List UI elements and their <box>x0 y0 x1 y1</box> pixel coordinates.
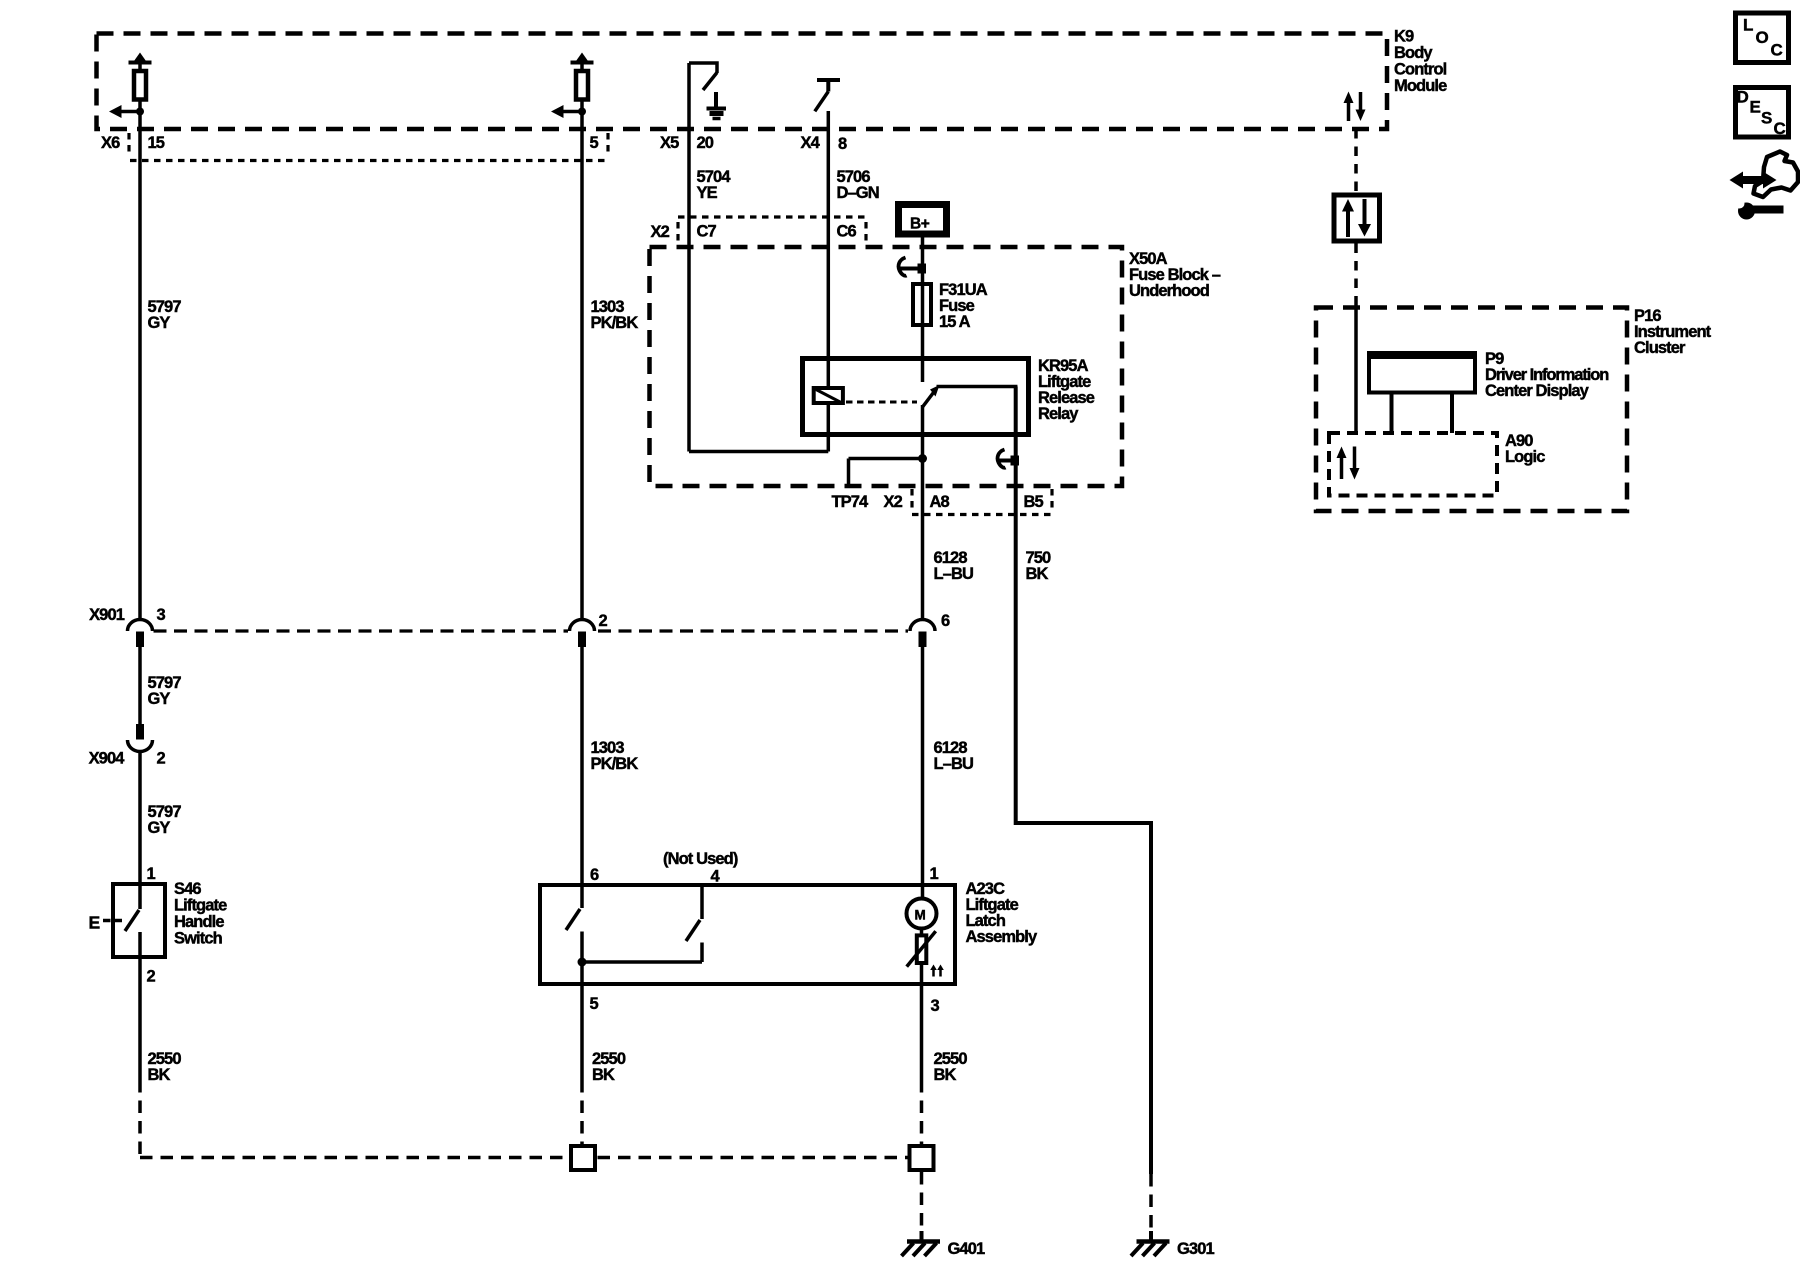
svg-text:S: S <box>1761 109 1772 128</box>
wire 5704 YE vertical (from BCM X5-20) <box>687 63 691 452</box>
svg-text:G301: G301 <box>1177 1240 1214 1258</box>
svg-text:C: C <box>1771 41 1783 60</box>
svg-text:Cluster: Cluster <box>1634 339 1686 357</box>
svg-text:BK: BK <box>592 1066 615 1084</box>
BCM internal switch to ground (pin X5-20) <box>689 63 726 119</box>
wire label 2550 BK (left) <box>148 1050 182 1084</box>
svg-text:C7: C7 <box>697 223 717 241</box>
fuse block clip (top) <box>899 258 926 276</box>
thermal arrows <box>930 965 944 977</box>
wire 1303 PK/BK (below connector 2) <box>580 647 584 883</box>
latch internal switch (pin 6) <box>566 885 582 986</box>
latch A23C Liftgate Latch Assembly (solid box) <box>540 880 1038 984</box>
wire label 1303 PK/BK (lower) <box>591 739 639 773</box>
ground G301 <box>1131 1231 1214 1258</box>
svg-text:X2: X2 <box>651 223 670 241</box>
svg-text:Center Display: Center Display <box>1485 382 1590 400</box>
connector pin 6 (wire 6128) <box>910 612 950 647</box>
wire 5797 GY (below X904) <box>138 752 142 884</box>
svg-text:B+: B+ <box>910 216 930 233</box>
fuse F31UA 15 A <box>913 281 988 331</box>
svg-text:L–BU: L–BU <box>934 565 974 583</box>
wire label 6128 L-BU (lower) <box>934 739 974 773</box>
latch thermal protector <box>907 929 936 967</box>
svg-text:3: 3 <box>157 606 166 624</box>
svg-text:Relay: Relay <box>1038 405 1079 423</box>
svg-text:X4: X4 <box>801 134 821 152</box>
svg-text:GY: GY <box>148 690 171 708</box>
svg-text:BK: BK <box>934 1066 957 1084</box>
svg-text:D–GN: D–GN <box>837 184 879 202</box>
wire into cluster <box>1354 303 1358 433</box>
connector X901 pin 2 (middle wire) <box>570 612 608 647</box>
svg-text:3: 3 <box>931 997 940 1015</box>
B+ power feed box <box>899 205 947 235</box>
svg-text:Handle: Handle <box>174 913 224 931</box>
connector X6 (dotted row under BCM) <box>101 133 608 161</box>
connector X2 fuse block bottom row (pins A8, B5) <box>832 489 1053 515</box>
svg-text:X6: X6 <box>101 134 120 152</box>
wire label 2550 BK (right) <box>934 1050 968 1084</box>
dashed to ground G401 <box>920 1172 924 1231</box>
svg-text:L: L <box>1743 16 1753 35</box>
svg-text:5: 5 <box>590 134 599 152</box>
svg-text:O: O <box>1756 28 1769 47</box>
svg-text:BK: BK <box>148 1066 171 1084</box>
connector X2 row (pins C7, C6) <box>651 217 867 245</box>
wire 1303 PK/BK vertical (from BCM X6-5) <box>580 100 584 623</box>
latch pin labels <box>590 850 940 1015</box>
wire from B+ to fuse <box>921 238 925 383</box>
svg-text:C6: C6 <box>837 223 857 241</box>
latch motor M <box>907 899 937 929</box>
svg-text:X901: X901 <box>89 606 125 624</box>
connector pins X5-20 and X4-8 labels <box>660 134 847 153</box>
latch internal jumper between switches <box>582 960 702 964</box>
svg-text:BK: BK <box>1026 565 1049 583</box>
wire label 6128 L-BU (upper) <box>934 549 974 583</box>
svg-text:15 A: 15 A <box>939 313 971 331</box>
wire label 1303 PK/BK (upper) <box>591 298 639 332</box>
relay KR95A Liftgate Release Relay (solid box) <box>803 357 1095 435</box>
svg-text:15: 15 <box>148 134 165 152</box>
svg-text:Control: Control <box>1394 61 1447 79</box>
serial data dashed wire to cluster <box>1354 244 1358 304</box>
svg-text:E: E <box>1750 98 1761 117</box>
switch S46 Liftgate Handle Switch <box>113 880 227 957</box>
svg-text:GY: GY <box>148 314 171 332</box>
relay coil <box>814 388 843 403</box>
svg-text:8: 8 <box>838 135 847 153</box>
svg-text:2: 2 <box>157 750 166 768</box>
svg-text:K9: K9 <box>1394 28 1414 46</box>
svg-text:X904: X904 <box>89 750 126 768</box>
svg-text:1: 1 <box>930 865 939 883</box>
wire label 5797 GY (upper) <box>148 298 182 332</box>
BCM internal switch (pin X4-8) <box>815 80 840 111</box>
wire 6128 L-BU (below connector 6) <box>921 647 925 899</box>
svg-text:E: E <box>89 913 100 933</box>
svg-text:6: 6 <box>941 612 950 630</box>
ground run dashed (left wire down and across) <box>140 1080 908 1158</box>
LOC legend box <box>1736 13 1789 63</box>
fuse block X50A Fuse Block - Underhood (dashed box) <box>650 247 1221 486</box>
svg-text:C: C <box>1774 119 1786 138</box>
dashed drop right wire <box>920 1080 924 1144</box>
svg-text:TP74: TP74 <box>832 493 870 511</box>
data link communication icon <box>1730 152 1799 220</box>
wire 2550 BK from S46 <box>138 932 142 1080</box>
fuse block clip (lower, at B5) <box>998 450 1019 468</box>
wire 5706 D-GN vertical (from BCM X4-8) <box>827 111 831 388</box>
test point TP74 branch <box>849 459 923 487</box>
wire 2550 BK below pin 5 <box>580 986 584 1080</box>
wire label 750 BK <box>1026 549 1052 583</box>
svg-text:5: 5 <box>590 995 599 1013</box>
BCM driver output symbol (pin X6-15) <box>109 53 152 119</box>
display P9 Driver Information Center Display <box>1367 350 1609 433</box>
wire label 2550 BK (middle) <box>592 1050 626 1084</box>
svg-text:1: 1 <box>147 865 156 883</box>
relay output line to B5 <box>937 385 1016 389</box>
svg-text:PK/BK: PK/BK <box>591 755 639 773</box>
connector X901 pin 3 (left wire) <box>89 606 165 647</box>
wire 6128 from relay common down (A8) <box>921 405 925 622</box>
svg-text:YE: YE <box>697 184 718 202</box>
relay coil lower lead to 5704 wire <box>689 403 828 452</box>
svg-text:Assembly: Assembly <box>966 928 1038 946</box>
svg-text:S46: S46 <box>174 880 201 898</box>
connector X904 pin 2 (left wire) <box>89 724 166 768</box>
wire pin 3 to ground <box>920 963 924 1080</box>
svg-text:M: M <box>915 908 926 923</box>
BCM driver output symbol (pin X6-5) <box>551 53 594 119</box>
relay link (dashed mechanical) <box>846 401 917 404</box>
wire label 5706 D-GN <box>837 168 879 202</box>
wire label 5797 GY (middle) <box>148 674 182 708</box>
svg-text:X2: X2 <box>884 493 903 511</box>
svg-text:(Not Used): (Not Used) <box>663 850 738 868</box>
svg-text:Switch: Switch <box>174 930 223 948</box>
relay switch blade <box>923 385 940 407</box>
svg-text:2: 2 <box>599 612 608 630</box>
svg-text:Liftgate: Liftgate <box>174 897 227 915</box>
svg-text:6: 6 <box>590 866 599 884</box>
junction at TP74 branch <box>918 454 927 463</box>
module K9 Body Control Module (dashed box) <box>97 28 1448 130</box>
wire 750 BK from relay to G301 <box>1016 387 1151 1175</box>
splice (right) <box>910 1146 934 1170</box>
svg-text:X5: X5 <box>660 134 679 152</box>
svg-text:20: 20 <box>697 134 714 152</box>
svg-text:Body: Body <box>1394 44 1433 62</box>
dashed to ground G301 <box>1149 1174 1153 1231</box>
S46 manual actuator E <box>89 913 123 933</box>
svg-text:2: 2 <box>147 968 156 986</box>
junction dot in latch <box>578 958 587 967</box>
svg-text:G401: G401 <box>948 1240 985 1258</box>
dashed drop middle wire <box>580 1080 584 1144</box>
svg-text:GY: GY <box>148 819 171 837</box>
wire 5797 GY vertical (left, from BCM X6-15) <box>138 100 142 623</box>
wire label 5797 GY (lower) <box>148 803 182 837</box>
svg-text:Underhood: Underhood <box>1129 282 1209 300</box>
splice (middle) <box>571 1146 595 1170</box>
connector row X901 dashed line <box>154 629 909 632</box>
svg-text:D: D <box>1737 88 1749 107</box>
svg-text:Module: Module <box>1394 77 1447 95</box>
A90 serial arrows <box>1337 447 1360 480</box>
serial data dashed wire from BCM <box>1354 129 1358 193</box>
svg-text:B5: B5 <box>1024 493 1044 511</box>
svg-text:A8: A8 <box>930 493 950 511</box>
S46 internal contacts <box>125 884 140 931</box>
DESC legend box <box>1736 88 1789 139</box>
wire 5797 GY (below X901) <box>138 647 142 724</box>
svg-text:L–BU: L–BU <box>934 755 974 773</box>
BCM serial data arrows <box>1344 92 1366 122</box>
serial data gateway box <box>1334 195 1380 241</box>
svg-text:PK/BK: PK/BK <box>591 314 639 332</box>
latch internal switch (pin 4, not used) <box>686 885 702 962</box>
module P16 Instrument Cluster (dashed box) <box>1316 307 1712 511</box>
svg-text:Logic: Logic <box>1505 448 1545 466</box>
wire label 5704 YE <box>697 168 732 202</box>
ground G401 <box>902 1231 985 1258</box>
logic A90 (dashed box) <box>1329 432 1545 496</box>
